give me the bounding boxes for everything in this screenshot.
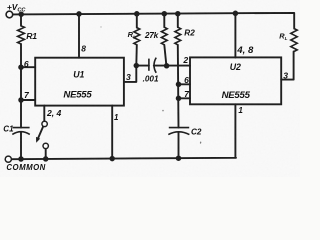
svg-text:C1: C1 [3, 125, 14, 134]
svg-text:COMMON: COMMON [6, 163, 45, 172]
svg-text:2, 4: 2, 4 [46, 108, 62, 118]
svg-text:6: 6 [184, 75, 189, 85]
svg-text:U1: U1 [73, 70, 84, 80]
svg-text:R1: R1 [26, 31, 37, 41]
svg-text:C2: C2 [191, 128, 202, 137]
svg-text:2: 2 [182, 55, 188, 65]
svg-text:1: 1 [238, 106, 243, 115]
svg-text:.001: .001 [143, 74, 159, 83]
svg-text:NE555: NE555 [63, 90, 92, 101]
svg-text:NE555: NE555 [222, 90, 251, 101]
svg-text:U2: U2 [230, 62, 241, 72]
svg-text:27k: 27k [144, 30, 159, 40]
svg-text:6: 6 [24, 59, 29, 69]
svg-text:8: 8 [81, 44, 86, 54]
svg-text:3: 3 [126, 72, 131, 82]
svg-text:R2: R2 [184, 28, 195, 37]
svg-text:4, 8: 4, 8 [236, 45, 254, 56]
svg-text:3: 3 [283, 70, 288, 80]
svg-text:1: 1 [114, 113, 119, 122]
